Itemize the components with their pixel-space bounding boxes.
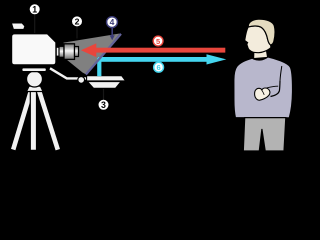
camera viewfinder <box>11 23 25 29</box>
svg-text:5: 5 <box>156 37 160 46</box>
label 4 arrow <box>110 28 115 40</box>
tripod center leg <box>30 89 37 150</box>
camera body <box>12 34 57 65</box>
person face <box>245 26 271 53</box>
svg-text:6: 6 <box>157 63 161 72</box>
lens rear stub <box>56 47 60 56</box>
label 6 circle <box>154 62 164 72</box>
lens barrel <box>64 44 75 60</box>
monitor screen bar <box>87 76 126 81</box>
person neck <box>254 49 268 59</box>
leader line to label 1 <box>34 14 36 34</box>
person hair <box>248 19 275 45</box>
svg-text:4: 4 <box>110 17 115 27</box>
tripod plate <box>22 68 47 72</box>
label 1 circle <box>30 4 40 14</box>
person arm elbow line <box>271 81 281 97</box>
shroud (hood) <box>64 34 120 75</box>
svg-text:1: 1 <box>32 5 37 15</box>
leader line to label 2 <box>76 27 78 39</box>
person upper forearm line <box>267 86 279 88</box>
label 3 circle <box>99 100 109 110</box>
lens front ring <box>75 47 79 57</box>
svg-text:3: 3 <box>101 100 106 110</box>
person thumb line <box>262 90 264 94</box>
svg-text:2: 2 <box>75 17 80 27</box>
label 4 circle <box>107 17 118 28</box>
leader line to label 3 <box>103 89 105 100</box>
tripod left leg <box>13 89 31 150</box>
tripod collar <box>27 86 44 91</box>
cyan light path vertical segment <box>97 58 101 76</box>
person pants <box>243 118 285 151</box>
beam splitter glass <box>86 34 121 75</box>
red arrowhead <box>81 43 96 57</box>
person upper arm seam <box>280 66 282 81</box>
lens mount <box>59 46 64 57</box>
person hand <box>255 88 270 100</box>
cyan light path horizontal bar <box>98 57 208 62</box>
label 2 circle <box>72 16 82 26</box>
rod ball joint <box>78 77 85 84</box>
monitor support rod <box>50 68 88 78</box>
cyan arrowhead <box>207 54 227 64</box>
tripod right leg <box>39 89 58 150</box>
label 5 circle <box>153 36 163 46</box>
tripod ball head <box>27 71 43 87</box>
red light path bar <box>96 48 226 53</box>
person sweater <box>234 57 293 118</box>
monitor case trapezoid <box>88 82 122 89</box>
